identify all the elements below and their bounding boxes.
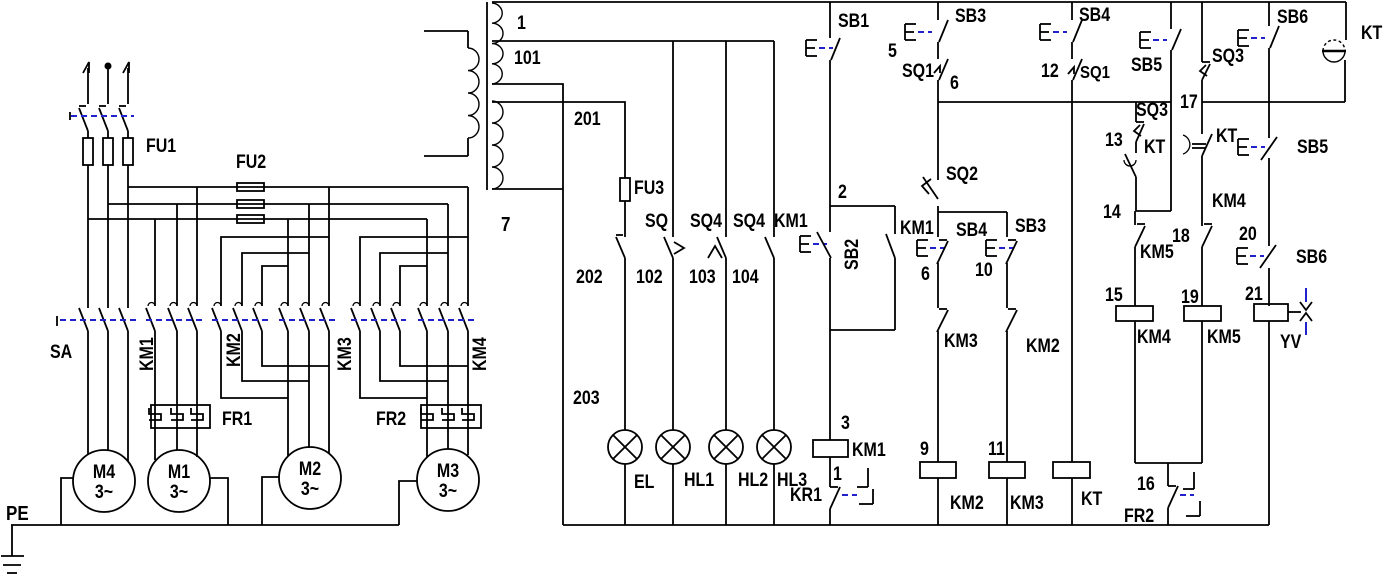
wire KM4b col1 feed [360, 237, 468, 306]
svg-text:KT: KT [1361, 22, 1383, 44]
label SB3 stop [1015, 215, 1046, 237]
svg-text:EL: EL [634, 471, 655, 493]
wire SB6 rung top [1268, 2, 1270, 26]
wire KM3 coil drop [1006, 331, 1008, 462]
wire KM4 coil drop [1134, 247, 1136, 306]
contactor KM2 linkage dash [212, 319, 268, 321]
contactor KM4 main contact 2 [439, 303, 448, 331]
label HL3 [777, 469, 807, 491]
wire KM4 col1 feed [426, 219, 428, 306]
label 21 [1245, 283, 1263, 305]
svg-text:M3: M3 [437, 460, 459, 482]
wire KM1 aux branch [894, 206, 896, 234]
label KM5 coil [1207, 326, 1241, 348]
lamp HL3 [757, 430, 791, 525]
solenoid YV actuator [1288, 288, 1312, 335]
wire SB1 rung top [829, 2, 831, 38]
label 6 lower [921, 263, 930, 285]
contactor KM1 linkage dash [146, 319, 203, 321]
limit switch SQ2 [922, 177, 938, 199]
wire KM1 aux branch bottom [830, 258, 895, 330]
wire KM5 coil drop [1201, 247, 1203, 306]
wire SQ3 branch top [1135, 102, 1137, 122]
svg-text:SB6: SB6 [1296, 246, 1327, 268]
pushbutton SB6 [1238, 26, 1279, 48]
contactor KM1 main contact 3 [188, 303, 197, 332]
svg-text:9: 9 [920, 438, 929, 460]
label KT no [1144, 136, 1166, 158]
svg-text:3~: 3~ [439, 480, 457, 502]
svg-text:7: 7 [501, 213, 510, 236]
wire KM3 col2 feed [308, 204, 310, 306]
wire node2 drop [829, 60, 831, 232]
label 19 [1181, 286, 1199, 308]
svg-text:SQ3: SQ3 [1136, 99, 1168, 121]
wire KM3 col3 feed [328, 187, 330, 306]
switch SA pole 1 [79, 308, 88, 331]
contactor KM3 main contact 2 [371, 303, 380, 332]
wire M2 PE riser [262, 477, 279, 525]
wire KM2 col3 feed [262, 266, 288, 306]
wire KM1 col2 feed [176, 204, 178, 306]
limit switch SQ1 [934, 59, 948, 80]
wire control bottom bus [563, 524, 1269, 526]
timer KT clock [1322, 40, 1346, 62]
label 6 upper [950, 72, 959, 94]
transformer core line [486, 2, 488, 190]
wire SB5 drop [1170, 50, 1172, 211]
svg-text:11: 11 [988, 438, 1005, 460]
label SQ3 second [1212, 45, 1244, 67]
pushbutton SB6 stop [1237, 245, 1276, 268]
label SB4 [1079, 4, 1110, 26]
label SQ4 b [733, 210, 765, 232]
lamp HL2 [709, 430, 743, 525]
wire KT coil drop [1071, 80, 1073, 462]
svg-text:203: 203 [573, 387, 600, 409]
contactor KM3a main contact 2 [300, 303, 309, 332]
svg-text:3: 3 [841, 412, 850, 434]
svg-text:15: 15 [1105, 284, 1123, 306]
label SB4 stop [956, 219, 987, 241]
coil KM4 [1116, 306, 1153, 321]
contactor KM4 main contact 3 [459, 303, 468, 332]
label 101 [514, 47, 541, 69]
thermal relay FR1 element 1 [149, 408, 161, 420]
wire SB3b-KM2nc [1006, 263, 1008, 308]
svg-text:PE: PE [6, 502, 29, 525]
label 203 [573, 387, 600, 409]
thermal relay FR2 box [421, 405, 481, 428]
wire KM3-KM4 tie 1 [360, 331, 427, 398]
svg-text:KM2: KM2 [1026, 335, 1060, 357]
contactor KM3 main contact 1 [351, 303, 360, 332]
wire SB4-SQ1b [1071, 42, 1073, 59]
svg-text:SB3: SB3 [955, 5, 986, 27]
label SQ4 a [690, 210, 722, 232]
contactor KM2 main contact 1 [212, 303, 221, 332]
coil KM1 [813, 440, 848, 457]
svg-text:6: 6 [950, 72, 959, 94]
svg-text:FU3: FU3 [634, 177, 664, 199]
svg-text:FR2: FR2 [376, 408, 406, 430]
label SB1 [838, 10, 869, 32]
wire KT clock down [1344, 60, 1346, 102]
label KM3 nc [944, 330, 978, 352]
wire KT coil to bus [1071, 478, 1073, 525]
svg-text:16: 16 [1137, 473, 1155, 495]
wire M3 PE riser [399, 481, 417, 525]
wire SB4-KM3nc [937, 263, 939, 308]
wire HL2 drop [725, 258, 727, 430]
motor M4 [73, 450, 135, 512]
svg-text:HL1: HL1 [684, 469, 714, 491]
wire KT clock top [1345, 2, 1347, 40]
label KM2 coil [950, 492, 984, 514]
fuse FU2 element top [237, 183, 264, 191]
wire M4 lead 3 [127, 331, 129, 461]
wire M2 lead 3 [328, 331, 330, 454]
label SQ2 [946, 163, 978, 185]
wire SB4 rung top [1071, 2, 1073, 20]
label KM1 main [136, 337, 158, 371]
switch SA pole 2 [99, 308, 108, 331]
svg-text:YV: YV [1280, 331, 1302, 353]
contactor KM4 NC interlock [1202, 224, 1212, 247]
wire node17 drop [1201, 80, 1203, 134]
svg-text:12: 12 [1041, 60, 1059, 82]
svg-text:SQ3: SQ3 [1212, 45, 1244, 67]
svg-text:FU2: FU2 [236, 151, 266, 173]
pushbutton SB2 [800, 232, 831, 258]
label KM4 coil [1137, 326, 1171, 348]
svg-text:M2: M2 [299, 458, 321, 480]
wire phase bus A [88, 218, 427, 220]
svg-text:KM4: KM4 [469, 337, 491, 371]
label KM4 main [469, 337, 491, 371]
wire 7 drop [492, 84, 563, 525]
thermal relay FR1 element 2 [171, 408, 183, 420]
svg-text:1: 1 [517, 12, 526, 34]
svg-text:KM2: KM2 [950, 492, 984, 514]
switch QS linkage dash [70, 112, 134, 120]
label EL [634, 471, 655, 493]
wire KM2-KM3 tie 3 [262, 331, 329, 366]
svg-text:10: 10 [975, 259, 993, 281]
wire node14 [1136, 210, 1171, 212]
node L2 supply arrow [105, 63, 112, 105]
svg-text:SB1: SB1 [838, 10, 869, 32]
label SB5 [1131, 54, 1162, 76]
coil KM5 [1184, 306, 1221, 321]
svg-text:KT: KT [1081, 488, 1103, 510]
wire SA col3 [127, 187, 129, 308]
coil KM2 [920, 462, 956, 478]
svg-text:M4: M4 [93, 461, 115, 483]
limit switch SQ3 second [1200, 62, 1210, 80]
svg-text:KM1: KM1 [136, 337, 158, 371]
svg-text:SA: SA [50, 341, 72, 363]
label FU3 [634, 177, 664, 199]
wire KM1 col1 feed [154, 219, 156, 306]
label 12 [1041, 60, 1059, 82]
svg-text:18: 18 [1172, 225, 1190, 247]
lamp EL [608, 430, 642, 525]
wire KM2-KM3 tie 1 [221, 331, 288, 398]
wire M4 lead 2 [107, 331, 109, 450]
label SQ1 [902, 60, 934, 82]
wire KM1 coil drop [829, 258, 831, 440]
wire 201 lead [492, 102, 625, 178]
contactor KM3a linkage dash [279, 319, 335, 321]
label KT clock [1361, 22, 1383, 44]
svg-text:SQ2: SQ2 [946, 163, 978, 185]
pushbutton SB1 [806, 38, 840, 60]
contactor KM3 main contact 3 [391, 303, 400, 332]
svg-text:SB5: SB5 [1131, 54, 1162, 76]
wire KM1 col3 feed [196, 187, 198, 306]
svg-text:SB6: SB6 [1277, 6, 1308, 28]
coil KT [1053, 462, 1090, 478]
wire KR1 to bus [829, 509, 831, 525]
timer contact KT NO [1124, 142, 1136, 177]
wire node17 to KT [1202, 101, 1345, 103]
fuse FU1 element 2 [103, 131, 113, 204]
wire KM3-KM4 tie 2 [380, 331, 448, 381]
label 202 [576, 266, 603, 288]
label 201 [574, 108, 601, 130]
thermal relay FR2 element 2 [442, 408, 454, 420]
svg-text:KM5: KM5 [1207, 326, 1241, 348]
svg-text:KM3: KM3 [1010, 492, 1044, 514]
transformer secondary upper winding [492, 3, 503, 84]
wire 102 drop [672, 41, 674, 237]
label KM4 nc [1212, 190, 1246, 212]
label KM2 nc [1026, 335, 1060, 357]
label 11 [988, 438, 1005, 460]
node L1 supply arrow [83, 62, 89, 104]
label YV [1280, 331, 1302, 353]
svg-text:KM1: KM1 [774, 210, 808, 232]
contactor KM4 linkage dash [418, 319, 474, 321]
svg-text:14: 14 [1103, 201, 1121, 223]
wire KM4 col2 feed [447, 204, 449, 306]
label 103 [689, 266, 716, 288]
transformer secondary lower winding [492, 101, 503, 189]
wire node2 branch [830, 205, 895, 207]
limit switch SQ1 second [1068, 59, 1082, 80]
pushbutton SB5 [1140, 29, 1181, 50]
wire KM3 col1 feed [287, 219, 289, 306]
svg-text:KM4: KM4 [1212, 190, 1246, 212]
svg-text:3~: 3~ [301, 478, 319, 500]
wire 104 drop [773, 41, 775, 237]
fuse FU3 [620, 178, 630, 237]
wire EL drop [624, 258, 626, 430]
svg-text:KT: KT [1216, 125, 1238, 147]
switch KM1 aux contact 104 [765, 237, 774, 258]
wire M1 lead 2 [176, 331, 178, 450]
svg-text:M1: M1 [168, 461, 190, 483]
contactor KM4 main contact 1 [418, 303, 427, 332]
label 20 [1239, 223, 1257, 245]
svg-text:101: 101 [514, 47, 541, 69]
svg-text:KM5: KM5 [1140, 241, 1174, 263]
label PE [6, 502, 29, 525]
wire node212 branch [938, 206, 1007, 237]
label 102 [636, 266, 663, 288]
pushbutton SB4 [1040, 20, 1082, 42]
wire 21 drop [1268, 268, 1270, 306]
label 2 [838, 181, 847, 203]
wire KM2 coil drop [937, 331, 939, 462]
label FU1 [146, 135, 176, 157]
ground PE symbol [1, 525, 24, 573]
limit switch SQ3 [1134, 122, 1144, 142]
motor M2 [279, 447, 341, 509]
wire HL3 drop [773, 258, 775, 430]
svg-text:KM3: KM3 [334, 337, 356, 371]
wire SA col2 [107, 204, 109, 308]
switch contact 202 [616, 235, 625, 258]
label KM3 coil [1010, 492, 1044, 514]
wire HL1 drop [672, 258, 674, 430]
wire SB6 drop [1268, 48, 1270, 138]
pushbutton SB3 [905, 20, 948, 42]
contactor KM1 aux contact [886, 234, 895, 258]
svg-text:KM4: KM4 [1137, 326, 1171, 348]
contactor KM1 main contact 1 [146, 303, 155, 332]
wire SB3 rung top [937, 2, 939, 20]
wire M4 lead 1 [87, 331, 89, 454]
contactor KM3 NC interlock [937, 309, 948, 332]
label SQ3 [1136, 99, 1168, 121]
svg-text:102: 102 [636, 266, 663, 288]
contactor KM2 main contact 3 [253, 303, 262, 332]
label KM1 104 [774, 210, 808, 232]
wire 18 drop [1201, 156, 1203, 226]
label SB2 [841, 239, 863, 270]
label KR1 [790, 484, 822, 506]
label KM1 aux [900, 217, 934, 239]
motor M3 [417, 449, 479, 511]
svg-text:6: 6 [921, 263, 930, 285]
label FU2 [236, 151, 266, 173]
svg-text:21: 21 [1245, 283, 1263, 305]
fuse FU2 element mid [237, 200, 264, 208]
label HL1 [684, 469, 714, 491]
label 17 [1180, 91, 1198, 113]
switch QS blade 2 [99, 106, 108, 131]
wire KM4b col3 feed [400, 266, 427, 306]
label SQ1 second [1080, 62, 1110, 83]
wire M3 lead 3 [467, 331, 469, 455]
wire phase bus B [108, 203, 448, 205]
wire M3 lead 2 [447, 331, 449, 449]
wire 13-14 [1135, 177, 1137, 211]
wire M1 PE riser [210, 478, 228, 525]
pushbutton SB4 stop [917, 240, 948, 264]
svg-text:FU1: FU1 [146, 135, 176, 157]
svg-text:KM1: KM1 [900, 217, 934, 239]
svg-text:202: 202 [576, 266, 603, 288]
wire KM2 coil to bus [937, 478, 939, 525]
contactor KM1 main contact 2 [168, 303, 177, 332]
svg-text:20: 20 [1239, 223, 1257, 245]
motor M1 [148, 450, 210, 512]
wire KM4 coil down [1134, 321, 1136, 463]
wire KM3-KM4 tie 3 [400, 331, 468, 366]
svg-text:SB5: SB5 [1297, 136, 1328, 158]
wire 14 drop [1134, 211, 1136, 225]
svg-text:KM1: KM1 [852, 439, 886, 461]
label 5 [888, 40, 897, 62]
svg-text:SQ1: SQ1 [902, 60, 934, 82]
pushbutton SB5 stop [1238, 137, 1277, 160]
label 16 [1137, 473, 1155, 495]
thermal relay FR2 element 3 [462, 408, 474, 420]
timer contact KT NC delay [1183, 134, 1212, 156]
label FR2 contact [1124, 505, 1154, 527]
label KM3 main [334, 337, 356, 371]
label KM5 nc [1140, 241, 1174, 263]
label 18 [1172, 225, 1190, 247]
label FR1 [222, 408, 252, 430]
label KT coil [1081, 488, 1103, 510]
wire M3 lead 1 [426, 331, 428, 457]
svg-text:17: 17 [1180, 91, 1198, 113]
svg-text:FR1: FR1 [222, 408, 252, 430]
svg-text:3~: 3~ [95, 481, 113, 503]
svg-text:FR2: FR2 [1124, 505, 1154, 527]
svg-text:19: 19 [1181, 286, 1199, 308]
fuse FU1 element 1 [83, 131, 93, 219]
svg-text:104: 104 [732, 266, 759, 288]
label 7 [501, 213, 510, 236]
label SQ [645, 210, 668, 232]
svg-text:2: 2 [838, 181, 847, 203]
wire SB5b drop [1268, 158, 1270, 246]
svg-text:1: 1 [833, 463, 842, 485]
thermal relay FR1 box [151, 405, 210, 428]
wire 103 drop [725, 41, 727, 237]
wire node1 [829, 457, 831, 487]
label KT nc [1216, 125, 1238, 147]
thermal contact FR2 [1168, 472, 1200, 516]
switch QS blade 1 [79, 106, 88, 131]
svg-text:SB4: SB4 [956, 219, 987, 241]
wire KM2-KM3 tie 2 [242, 331, 309, 381]
label 1 [517, 12, 526, 34]
label 10 [975, 259, 993, 281]
label 9 [920, 438, 929, 460]
contactor KM3 linkage dash [351, 319, 406, 321]
wire KM2 col1 feed [221, 237, 329, 306]
svg-text:SB2: SB2 [841, 239, 863, 270]
wire phase bus C [128, 186, 468, 188]
switch QS blade 3 [119, 106, 128, 131]
wire KM4 col3 feed [467, 187, 469, 306]
thermal relay FR2 element 1 [421, 408, 433, 420]
wire secondary common [492, 188, 563, 190]
label 14 [1103, 201, 1121, 223]
coil YV [1254, 304, 1288, 321]
wire SB3b drop [1006, 212, 1008, 237]
wire KM2 col2 feed [242, 253, 309, 306]
wire KM4b col2 feed [380, 253, 448, 306]
wire node6 to 17 [938, 101, 1171, 103]
wire SB5 rung top [1170, 2, 1172, 29]
